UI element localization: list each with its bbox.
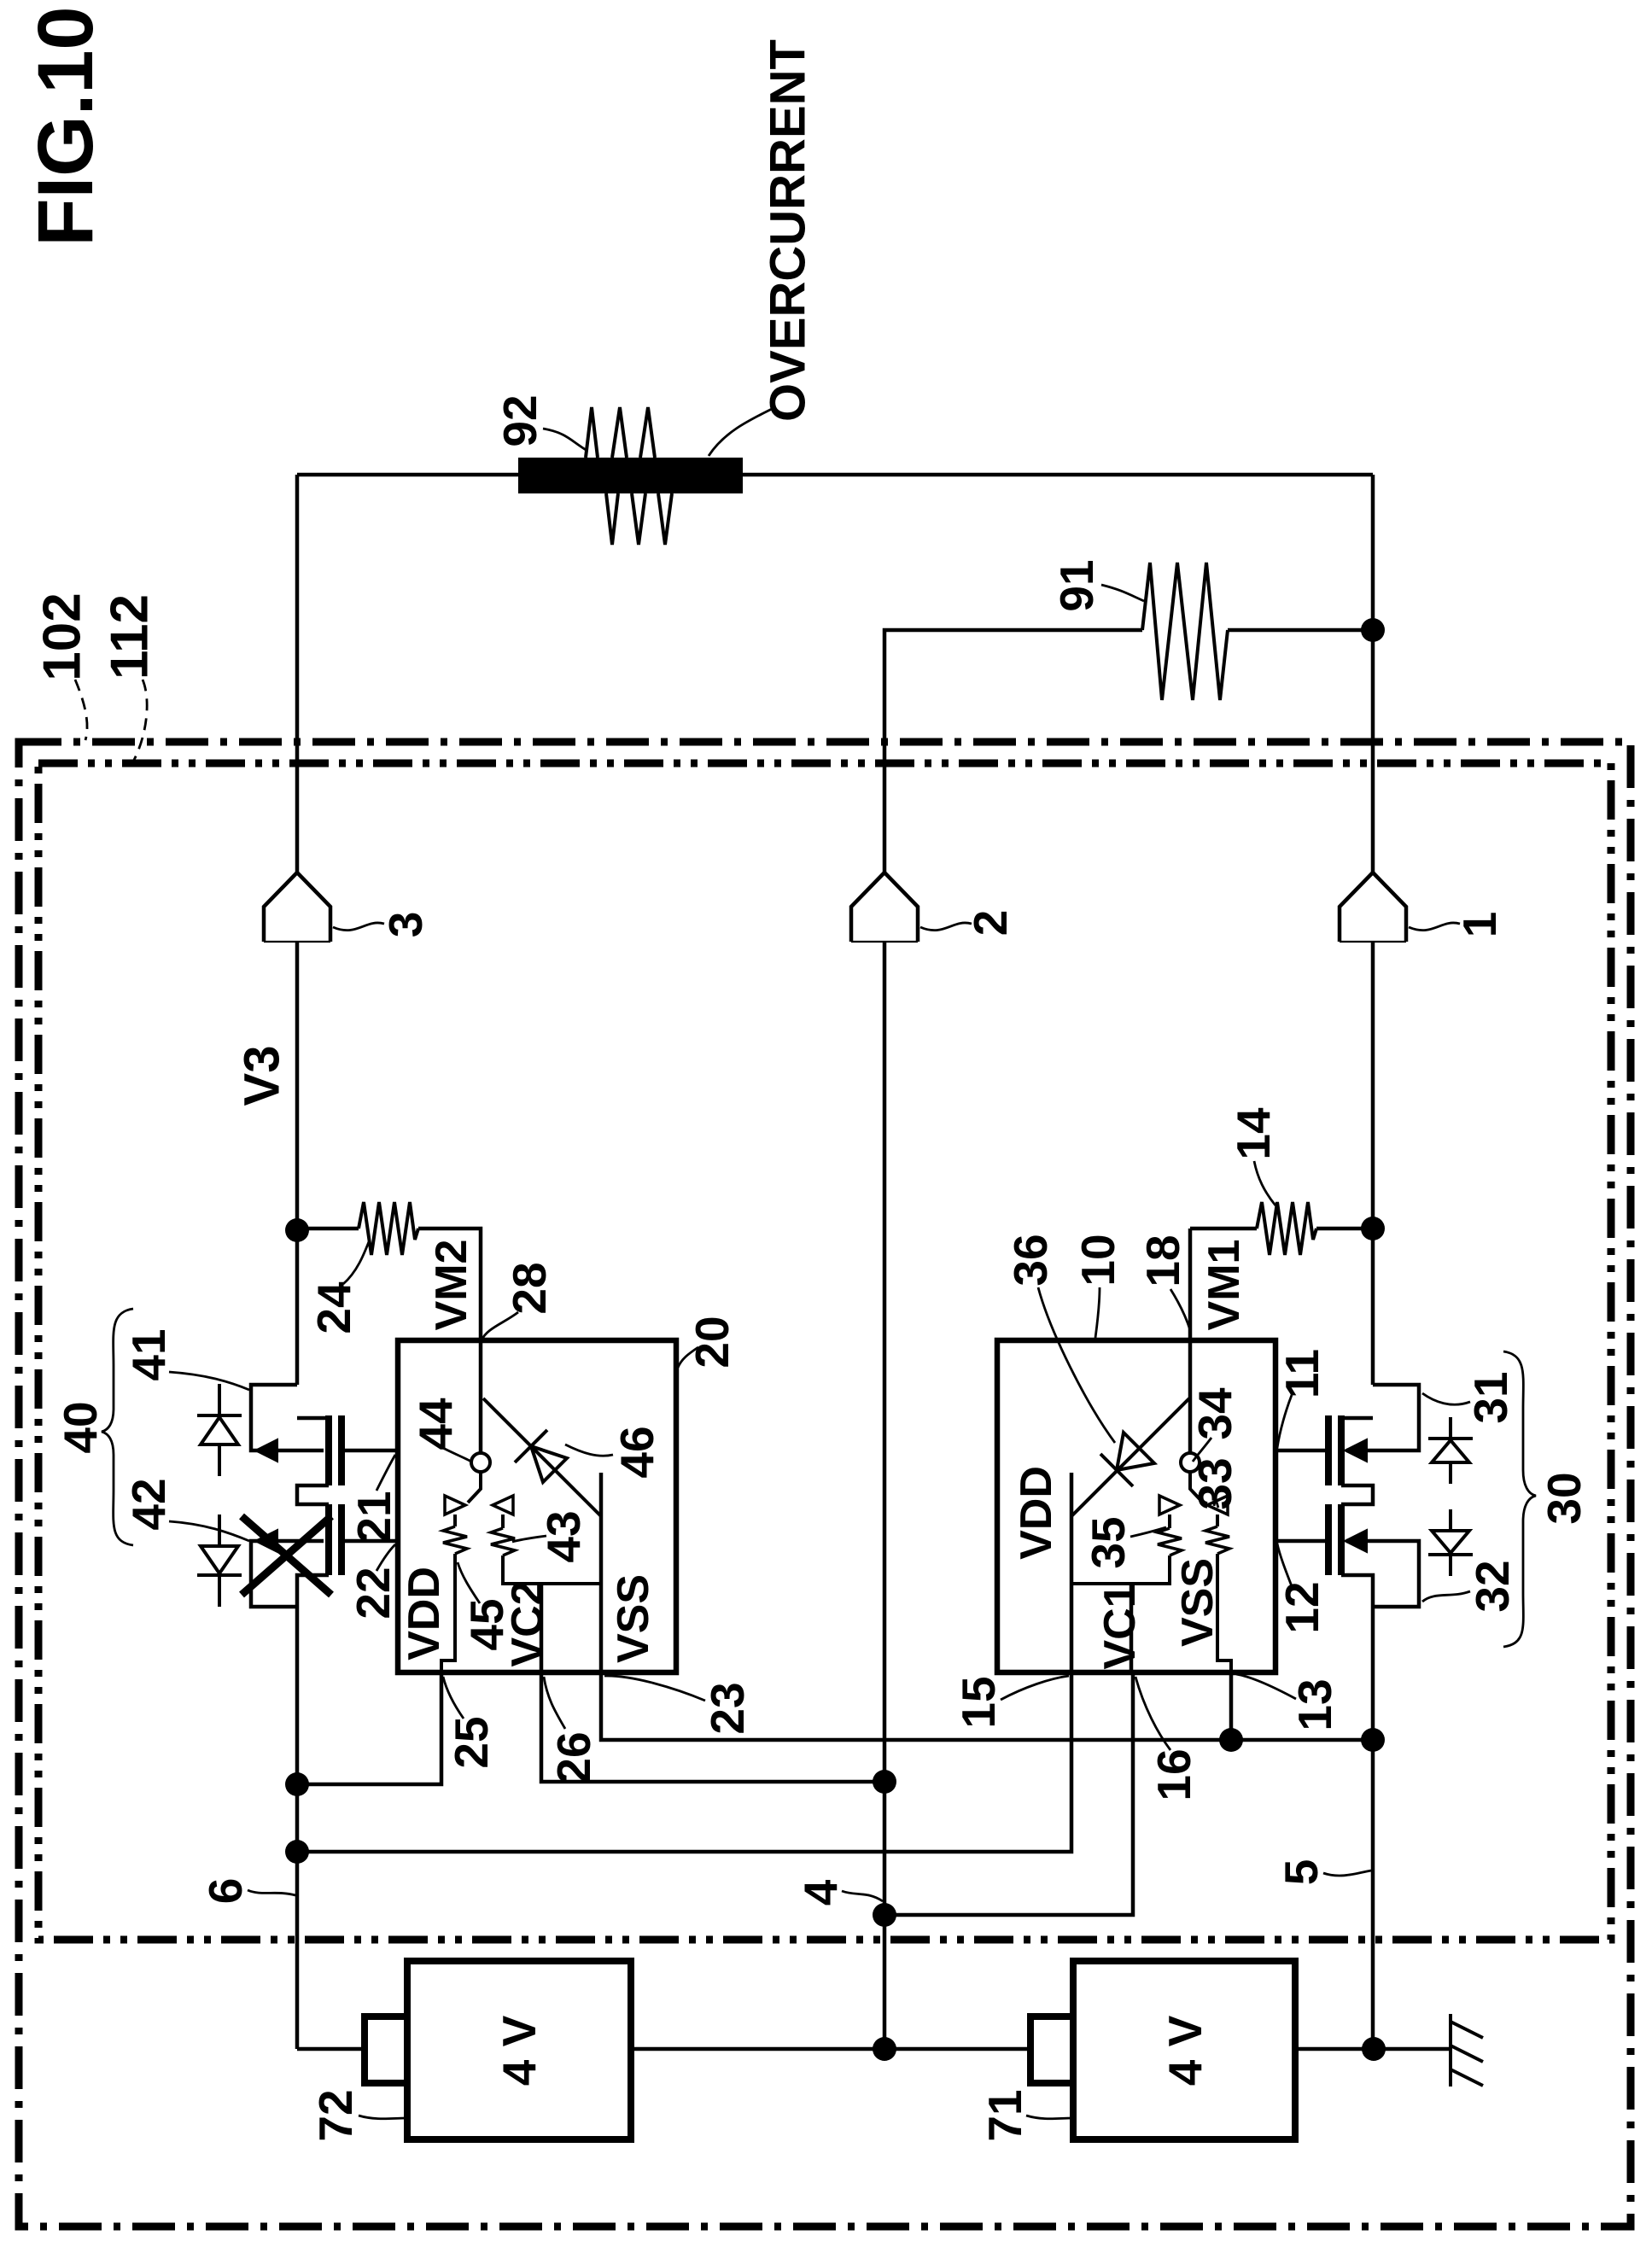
detector arrow 45 [445,1496,465,1515]
svg-text:22: 22 [347,1567,400,1619]
resistor 24 [297,1227,359,1231]
svg-text:1: 1 [1453,912,1506,938]
svg-text:2: 2 [964,910,1017,937]
wire 26 from VC2 pin of box 20 [541,1672,884,1782]
svg-text:23: 23 [701,1682,754,1734]
diode 46 cathode bar [515,1430,547,1462]
pin wire VSS of box 10 down to wire 23 [1229,1672,1234,1740]
wire 33 down to VSS pin notch [1217,1554,1231,1672]
svg-text:41: 41 [122,1328,175,1380]
transistor Q31 drain tab [1346,1385,1419,1450]
resistor 35 (vertical zigzag) [1168,1515,1171,1528]
wire Q41-Q42 source link [297,1485,329,1504]
svg-text:24: 24 [307,1281,360,1334]
body diode of Q42 [197,1515,242,1607]
wire 35 to stub [1071,1555,1170,1584]
node junction dot at 91 / terminal-1 line [1361,618,1385,642]
node dot battery71 / terminal-1 line [1362,2037,1386,2061]
transistor Q32 channel bar [1338,1504,1345,1575]
wire 43 to VSS stub [503,1555,601,1584]
svg-text:V3: V3 [235,1046,290,1106]
transistor Q32 gate bar [1325,1504,1332,1575]
battery 72 box [407,1961,631,2139]
resistor 14 [1190,1229,1257,1340]
transistor Q42 channel bar [325,1504,332,1575]
svg-text:4 V: 4 V [493,2015,546,2086]
node dot wire25 / V3 line [285,1772,309,1796]
svg-text:FIG.10: FIG.10 [22,6,109,246]
svg-text:VDD: VDD [1012,1466,1061,1560]
svg-text:28: 28 [503,1262,556,1314]
svg-text:20: 20 [686,1316,738,1368]
wire top rail V3 to resistor 92 to terminal-1 line [297,473,1373,477]
diode 46 diagonal in box 20 [483,1398,601,1516]
wire resistor 91 to junction [1228,628,1373,633]
diode 36 diagonal in box 10 [1071,1398,1189,1516]
svg-text:10: 10 [1071,1234,1124,1286]
svg-text:14: 14 [1227,1107,1280,1160]
svg-text:21: 21 [347,1491,400,1543]
wire bubble to detector 33 [1190,1472,1203,1503]
svg-text:71: 71 [978,2089,1031,2141]
transistor Q31 gate bar [1325,1415,1332,1485]
svg-text:42: 42 [122,1478,175,1530]
diode 46 body [531,1446,567,1482]
svg-text:35: 35 [1082,1516,1135,1568]
VSS stub line in box 20 [599,1473,604,1672]
svg-text:16: 16 [1147,1748,1200,1801]
wire Q31-Q32 source link [1341,1485,1373,1504]
wire V3 line below terminal 3 [295,942,300,1385]
svg-text:VM1: VM1 [1200,1240,1249,1331]
ground symbol [1451,2014,1483,2086]
transistor Q31 body arrow [1345,1439,1367,1462]
svg-text:4 V: 4 V [1159,2015,1211,2086]
svg-text:102: 102 [33,592,92,680]
svg-text:4: 4 [794,1879,847,1906]
gate wire pin 21 [341,1449,398,1453]
brace for FET group 40 [102,1309,133,1545]
svg-text:VC2: VC2 [503,1580,552,1666]
detector arrow 35 [1159,1496,1180,1515]
VC1 pin line in box 10 [1130,1584,1134,1672]
wire Q32 drain link to main line [1341,1575,1373,2049]
transistor Q31 channel bar [1338,1415,1345,1485]
svg-text:11: 11 [1275,1349,1328,1398]
svg-text:25: 25 [445,1716,498,1768]
svg-text:46: 46 [610,1426,663,1478]
transistor Q41 body arrow [255,1439,277,1462]
body diode of Q31 [1428,1417,1473,1484]
svg-text:18: 18 [1136,1234,1189,1287]
X cross over transistor Q42 [242,1516,331,1595]
svg-text:91: 91 [1050,559,1103,611]
svg-text:VSS: VSS [609,1574,658,1663]
transistor Q41 drain tab [251,1385,324,1450]
resistor 92 (black bar) [518,458,743,493]
terminal 1 (pentagon) [1340,873,1406,942]
battery 71 box [1073,1961,1295,2139]
svg-text:15: 15 [952,1676,1005,1728]
svg-text:3: 3 [379,912,432,938]
pin VM1 wire into box 10 [1188,1340,1193,1453]
svg-text:13: 13 [1288,1678,1341,1730]
node dot V3 at resistor 24 [285,1218,309,1242]
battery 72 terminal tab [365,2016,407,2083]
wire right drop from top rail down to junction [1371,475,1375,873]
svg-text:VSS: VSS [1173,1558,1223,1647]
gate wire pin 11 [1274,1449,1325,1453]
transistor Q42 gate bar [338,1504,345,1575]
wire Q42 drain link to main line [297,1575,329,2049]
svg-text:32: 32 [1466,1560,1519,1612]
brace for FET group 30 [1503,1351,1536,1647]
node dot wire4 / terminal-2 line [873,1903,896,1927]
wire 23 from VSS pin of box 20 to terminal-1 line [601,1672,1373,1740]
svg-text:34: 34 [1188,1387,1241,1440]
pin VM2 wire into box 20 [479,1340,483,1453]
resistor 92 overcurrent spikes below [606,493,672,545]
diode 36 cathode bar [1100,1454,1133,1486]
svg-text:VM2: VM2 [427,1240,476,1331]
terminal 3 (pentagon) [264,873,330,942]
comparator input bubble (44) in box 20 [471,1453,490,1472]
wire 25 from VDD pin of box 20 [297,1672,441,1784]
terminal 2 (pentagon) [851,873,918,942]
wire Q41 drain link [297,1416,329,1421]
wire terminal-1 line down to MOSFET 30 [1371,942,1375,1385]
svg-text:5: 5 [1275,1859,1328,1886]
resistor 91 zigzag [1142,563,1228,700]
wire 6 from V3 line to pin 15 of box 10 [297,1672,1071,1852]
wire terminal-2 line down [883,942,887,2049]
resistor 43 (vertical zigzag) [501,1515,505,1528]
VC2 pin line in box 20 [540,1584,544,1672]
frame 102 outer dash-dot border [19,742,1631,2227]
detector arrow 33 [1207,1496,1228,1515]
node dot wire26 / terminal-2 line [873,1770,896,1794]
node dot box10 VSS / wire 23 [1219,1728,1243,1752]
battery 71 terminal tab [1030,2016,1073,2083]
wire battery 72 to battery 71 [631,2047,1030,2051]
diode 36 body [1117,1433,1154,1470]
body diode of Q41 [197,1384,242,1476]
node dot terminal-1 at resistor 14 [1361,1217,1385,1240]
node dot wire 23 / terminal-1 line [1361,1728,1385,1752]
IC box 20 [398,1340,676,1672]
svg-text:36: 36 [1004,1234,1057,1286]
wire 4 from terminal-2 line to VC1 pin 16 of box 10 [884,1672,1133,1915]
resistor 92 overcurrent spikes above [586,407,655,458]
svg-text:40: 40 [54,1401,107,1453]
left stub line in box 10 (pin 15) [1070,1473,1074,1672]
frame 112 inner dash-dot-dot border [38,763,1611,1940]
node dot mid-battery / terminal-2 line [873,2037,896,2061]
IC box 10 [997,1340,1275,1672]
wire V3 line to battery 72 tab [297,2047,365,2051]
svg-text:12: 12 [1275,1581,1328,1633]
svg-text:6: 6 [199,1878,252,1905]
svg-text:VC1: VC1 [1095,1583,1145,1669]
transistor Q41 gate bar [338,1415,345,1485]
resistor 45 (vertical zigzag) [453,1515,457,1526]
wire battery 71 to ground [1295,2047,1451,2051]
body diode of Q32 [1428,1509,1473,1576]
wire 45 down to VDD pin notch [441,1554,455,1672]
gate wire pin 22 [341,1539,398,1544]
svg-text:30: 30 [1538,1472,1591,1524]
resistor 33 (vertical zigzag) [1216,1515,1219,1526]
wire terminal-2 line up to resistor 91 [884,630,1142,873]
transistor Q32 body arrow contact [1346,1541,1419,1607]
svg-text:26: 26 [547,1731,600,1783]
svg-text:31: 31 [1464,1371,1517,1423]
wire Q31 drain link [1341,1416,1373,1421]
gate wire pin 12 [1274,1539,1325,1544]
wire bubble to detector 45 [468,1472,481,1503]
svg-text:72: 72 [309,2089,362,2141]
svg-text:VDD: VDD [400,1567,449,1660]
wire left drop from top rail to terminal 3 line [295,475,300,873]
comparator input bubble (34) in box 10 [1181,1453,1200,1472]
svg-text:112: 112 [101,594,160,680]
detector arrow 43 [493,1496,513,1515]
svg-text:OVERCURRENT: OVERCURRENT [761,39,816,422]
svg-text:92: 92 [493,394,546,446]
svg-text:44: 44 [409,1398,462,1450]
transistor Q42 body arrow contact [251,1541,324,1607]
node dot wire6 / V3 line [285,1840,309,1864]
transistor Q41 channel bar [325,1415,332,1485]
